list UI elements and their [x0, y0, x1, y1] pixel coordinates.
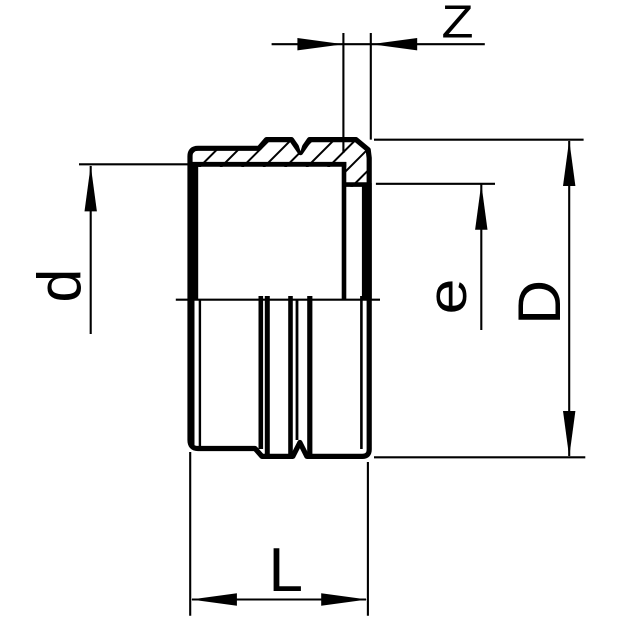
left bore line (lower, thin): [199, 300, 201, 447]
dimension d: dim line: [90, 166, 92, 334]
inner edge line c: [288, 296, 293, 454]
dimension L: left extension line: [189, 452, 191, 616]
dimension Z: dim line: [272, 43, 485, 45]
svg-text:Z: Z: [442, 0, 474, 47]
dimension e: arrow: [475, 184, 487, 230]
inner edge line b: [265, 296, 270, 454]
inner edge line d: [307, 296, 312, 454]
right bore line (upper): [362, 183, 372, 300]
head band bottom edge: [188, 162, 346, 167]
dimension d: extension line: [79, 163, 188, 165]
dimension D: dim line: [568, 141, 570, 456]
dimension L: right extension line: [367, 462, 369, 616]
top V-notch opening: [296, 137, 305, 151]
dimension D: top arrow: [563, 140, 575, 186]
dimension D: bottom extension line: [374, 456, 585, 458]
dimension L: right arrow: [321, 593, 367, 605]
dimension e: extension line: [376, 183, 495, 185]
left wall inner thickening (lower): [192, 300, 195, 446]
inner step line (from band to mid): [342, 162, 347, 300]
dimension D: bottom arrow: [563, 411, 575, 457]
groove tip line (thin): [296, 300, 299, 440]
dimension L: dim line: [192, 598, 366, 600]
svg-text:L: L: [268, 536, 302, 605]
hatching (45deg section lines): [153, 128, 411, 192]
mid horizontal line: [176, 299, 380, 301]
right bore line (lower, thin): [360, 296, 363, 449]
part outline: [190, 140, 369, 457]
svg-text:D: D: [506, 280, 573, 325]
dimension Z: right arrow: [371, 38, 417, 50]
dimension L: left arrow: [191, 593, 237, 605]
dimension Z: left arrow: [297, 38, 343, 50]
dimension d: arrow: [85, 165, 97, 211]
dimension e: dim line: [480, 185, 482, 331]
svg-text:d: d: [26, 269, 94, 303]
collar bottom edge (right): [342, 182, 371, 187]
inner edge line a: [258, 296, 263, 449]
dimension Z: right extension line: [370, 33, 372, 140]
dimension Z: left extension line: [342, 33, 344, 153]
svg-text:e: e: [416, 279, 478, 315]
dimension D: top extension line: [374, 139, 584, 141]
left bore line (upper): [188, 162, 199, 300]
